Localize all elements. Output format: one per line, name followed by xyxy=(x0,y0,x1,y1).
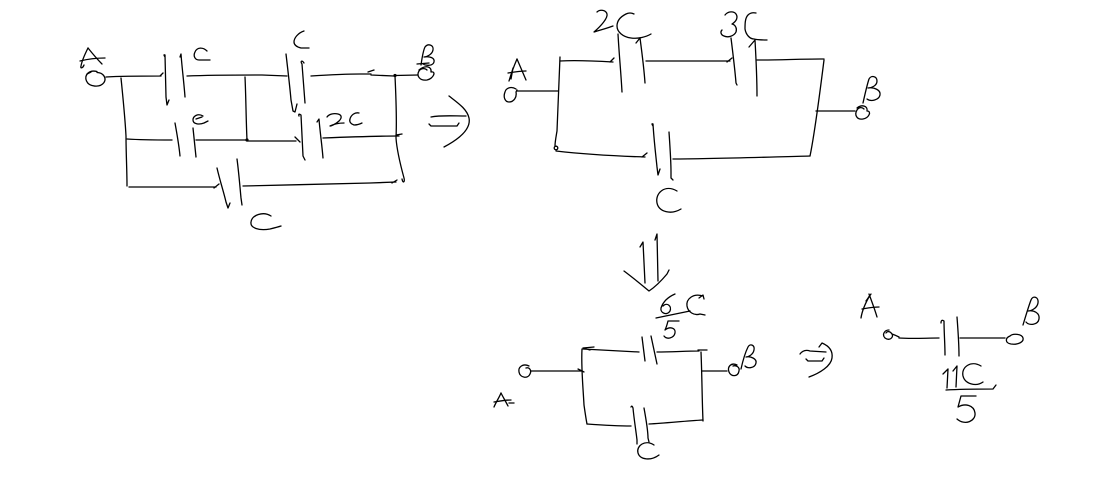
capacitor 3C right plate xyxy=(749,40,757,96)
junction dot near B xyxy=(393,74,396,77)
wire A to C1 xyxy=(106,73,163,77)
capacitor C2 left plate xyxy=(286,54,297,112)
capacitor C3 right plate xyxy=(193,128,196,157)
node A label xyxy=(861,294,879,318)
wire left branch vertical xyxy=(555,57,560,146)
wire C2 to node B xyxy=(311,70,394,76)
node B terminal xyxy=(418,67,434,80)
wire right vertical xyxy=(701,352,703,421)
wire top left xyxy=(583,347,639,352)
wire junction to C4 xyxy=(247,137,300,142)
node A label xyxy=(494,393,514,407)
arrow 2 head xyxy=(624,270,669,291)
label 6C/5 xyxy=(656,294,705,338)
wire bottom left xyxy=(556,151,647,157)
wire left vertical xyxy=(582,349,587,424)
capacitor Cb left plate xyxy=(652,124,660,175)
wire row2 left xyxy=(127,139,172,140)
capacitor Cb label C xyxy=(657,189,681,213)
wire C4 to right branch xyxy=(323,134,402,138)
arrow 2 right bar xyxy=(655,234,658,281)
wire A xyxy=(531,369,584,372)
node A label xyxy=(80,48,105,68)
capacitor Cb2 right plate xyxy=(644,408,649,442)
capacitor C5 left plate xyxy=(217,168,230,208)
capacitor C2 label C xyxy=(294,31,309,48)
capacitor Ct left plate xyxy=(642,337,645,361)
arrow 1 top bar xyxy=(431,116,466,117)
capacitor C5 label C xyxy=(251,214,281,230)
node B label xyxy=(1023,297,1039,325)
middle branch vertical xyxy=(245,77,247,140)
wire top right xyxy=(757,59,824,60)
node B terminal xyxy=(728,364,739,376)
wire junction to B terminal xyxy=(395,74,418,77)
wire right branch vertical xyxy=(810,60,824,156)
wire A to left branch xyxy=(517,90,558,92)
wire C1 to C2 xyxy=(187,75,287,76)
capacitor C3 label c xyxy=(193,115,208,124)
wire top left xyxy=(560,58,614,62)
node B terminal xyxy=(1006,334,1023,344)
wire left branch vertical xyxy=(121,78,127,186)
wire cap to B xyxy=(960,337,1005,339)
wire B xyxy=(702,370,727,372)
arrow 3 curve xyxy=(809,343,832,377)
node B terminal xyxy=(856,106,870,119)
capacitor Ct right plate xyxy=(651,336,657,364)
capacitor C5 right plate xyxy=(237,159,242,205)
arrow 2 left bar xyxy=(640,242,645,283)
node A terminal xyxy=(884,330,899,339)
corner blob bottom-left xyxy=(554,146,558,150)
node A label xyxy=(508,59,526,81)
capacitor C1 right plate xyxy=(180,54,185,97)
capacitor Ceq left plate xyxy=(941,320,945,355)
capacitor C4 label 2C xyxy=(327,113,362,126)
capacitor Ceq right plate xyxy=(957,317,959,356)
wire A to cap xyxy=(899,337,939,339)
node A terminal xyxy=(86,71,105,86)
capacitor 2C right plate xyxy=(636,38,645,83)
node A terminal xyxy=(504,88,517,102)
wire right branch vertical xyxy=(395,76,404,182)
node A terminal xyxy=(519,365,531,377)
capacitor C4 left plate xyxy=(299,114,305,160)
capacitor C2 right plate xyxy=(301,61,305,103)
capacitor 2C label xyxy=(594,10,651,38)
capacitor C1 left plate xyxy=(164,55,169,105)
capacitor 3C left plate xyxy=(731,38,737,85)
capacitor C1 label C xyxy=(194,48,210,60)
capacitor C4 right plate xyxy=(317,119,323,158)
arrow 1 curve xyxy=(444,96,469,147)
node B label xyxy=(863,77,880,103)
node B label xyxy=(417,45,434,65)
capacitor Cb right plate xyxy=(669,132,673,180)
capacitor Cb2 label C xyxy=(638,443,659,459)
capacitor 3C label xyxy=(721,12,767,40)
capacitor C3 left plate xyxy=(175,123,180,156)
wire bottom left xyxy=(587,424,631,426)
node B label xyxy=(741,345,756,369)
wire top right xyxy=(657,350,707,352)
wire bottom right xyxy=(649,420,703,424)
wire bottom right xyxy=(673,156,810,159)
label 11C/5 xyxy=(943,364,996,423)
arrow 3 bottom bar xyxy=(806,358,824,361)
capacitor 2C left plate xyxy=(618,34,622,92)
capacitor Cb2 left plate xyxy=(631,406,637,444)
wire C3 to mid junction xyxy=(196,139,247,141)
arrow 3 top bar xyxy=(800,350,826,354)
wire to node B xyxy=(816,110,855,112)
junction dot mid row2 xyxy=(245,138,248,141)
wire bottom branch right xyxy=(243,180,397,186)
wire bottom branch left xyxy=(129,184,219,188)
wire between 2C and 3C xyxy=(646,58,732,62)
arrow 1 bottom bar xyxy=(429,123,459,126)
